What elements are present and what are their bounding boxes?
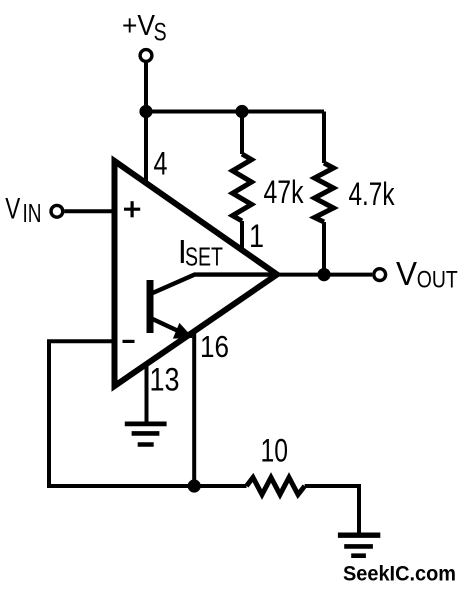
svg-text:1: 1 xyxy=(249,218,264,254)
terminal Vin xyxy=(51,205,63,217)
terminal Vout xyxy=(374,269,386,281)
wire 4.7k top lead xyxy=(322,112,326,164)
transistor collector line to output (Iset line) xyxy=(152,275,277,294)
node junction 47k top xyxy=(235,105,248,118)
wire inverting feedback loop xyxy=(49,341,194,486)
transistor base bar inside op-amp xyxy=(147,280,154,333)
svg-text:IN: IN xyxy=(23,198,42,228)
wire 4.7k bottom lead xyxy=(322,222,326,275)
wire +Vs stem xyxy=(144,63,148,112)
svg-text:10: 10 xyxy=(261,433,289,469)
resistor 4.7k zigzag xyxy=(315,163,334,222)
terminal +Vs xyxy=(140,50,152,62)
op-amp minus input symbol xyxy=(123,340,135,343)
svg-text:S: S xyxy=(154,18,167,46)
svg-text:OUT: OUT xyxy=(417,267,458,294)
wire pin 13 down xyxy=(145,358,149,424)
wire top supply rail xyxy=(146,110,324,114)
svg-text:13: 13 xyxy=(150,362,180,398)
resistor 10 ohm zigzag xyxy=(247,478,305,495)
wire pin 16 down xyxy=(192,327,196,486)
transistor emitter line xyxy=(152,319,183,333)
op-amp plus input symbol xyxy=(124,201,140,217)
wire pin 4 lead xyxy=(144,112,148,186)
svg-text:SeekIC.com: SeekIC.com xyxy=(343,563,456,586)
wire Vin lead xyxy=(65,209,119,213)
svg-text:+V: +V xyxy=(122,10,156,42)
svg-text:V: V xyxy=(5,192,20,225)
node junction Vout xyxy=(317,268,330,281)
resistor 47k zigzag xyxy=(233,154,252,221)
transistor emitter arrowhead xyxy=(175,325,191,337)
wire 47k bottom lead to pin 1 xyxy=(240,221,244,250)
svg-text:47k: 47k xyxy=(264,174,305,210)
wire output to Vout terminal xyxy=(276,273,372,277)
svg-text:16: 16 xyxy=(200,329,229,364)
wire 10 ohm to ground corner xyxy=(305,486,359,534)
op-amp U1 triangle xyxy=(115,161,278,386)
svg-text:4: 4 xyxy=(154,146,168,182)
node junction bottom rail xyxy=(188,479,201,492)
svg-text:V: V xyxy=(396,255,417,292)
wire 47k top lead xyxy=(240,112,244,155)
svg-text:SET: SET xyxy=(185,242,223,272)
ground pin 13 xyxy=(125,424,167,445)
ground bottom right xyxy=(338,535,380,556)
svg-text:4.7k: 4.7k xyxy=(349,176,396,212)
node junction top pin4 xyxy=(139,105,152,118)
wire bottom rail to 10 ohm xyxy=(194,484,246,488)
